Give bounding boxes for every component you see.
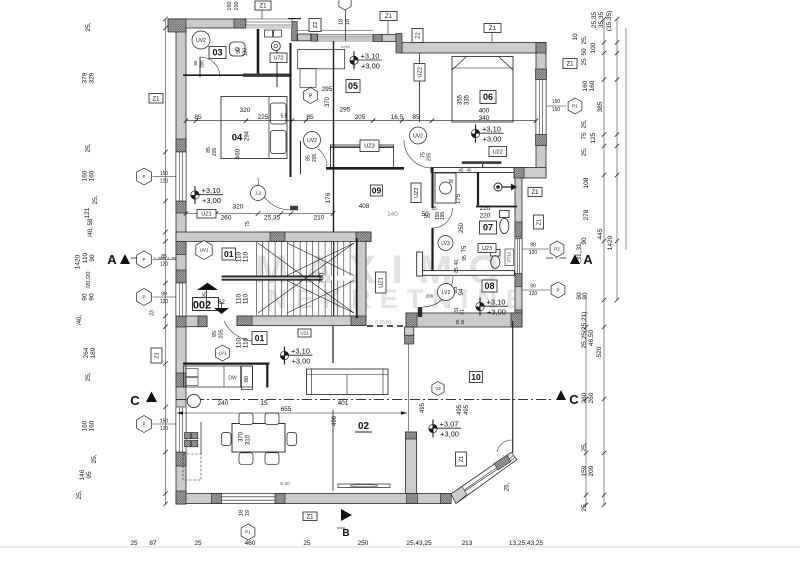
svg-text:240: 240: [218, 400, 229, 407]
svg-text:160: 160: [82, 420, 89, 431]
svg-text:Z1: Z1: [385, 14, 393, 20]
svg-text:176: 176: [325, 192, 332, 203]
svg-text:/40,: /40,: [77, 315, 83, 325]
svg-text:+3,00: +3,00: [292, 357, 311, 366]
svg-text:90: 90: [89, 254, 96, 262]
svg-text:110: 110: [82, 252, 89, 263]
svg-text:370: 370: [325, 96, 331, 107]
svg-text:95: 95: [431, 206, 437, 212]
svg-text:205: 205: [427, 153, 433, 162]
svg-text:A: A: [583, 252, 593, 267]
svg-text:80: 80: [244, 376, 250, 382]
svg-text:V2: V2: [435, 386, 441, 391]
svg-text:U21: U21: [300, 331, 309, 336]
svg-text:PT10: PT10: [507, 251, 512, 262]
svg-text:23: 23: [150, 310, 156, 316]
svg-text:(35,35): (35,35): [606, 11, 613, 32]
svg-text:Z1: Z1: [459, 456, 465, 462]
svg-text:310: 310: [246, 434, 252, 445]
svg-text:520: 520: [596, 346, 603, 357]
svg-text:+3,00: +3,00: [202, 196, 221, 205]
svg-text:195: 195: [440, 212, 446, 221]
svg-text:01: 01: [224, 249, 234, 259]
svg-text:90: 90: [89, 293, 96, 301]
svg-text:75: 75: [581, 132, 588, 140]
svg-text:108: 108: [583, 177, 590, 188]
svg-text:DW: DW: [228, 376, 237, 382]
svg-text:25,: 25,: [581, 147, 588, 156]
svg-text:95: 95: [212, 331, 218, 337]
svg-text:+3,00: +3,00: [483, 135, 502, 144]
svg-text:Z1: Z1: [566, 62, 574, 68]
svg-text:25: 25: [130, 540, 138, 547]
svg-text:95: 95: [462, 255, 468, 261]
svg-text:13,25,43,25: 13,25,43,25: [509, 540, 544, 547]
svg-text:496: 496: [332, 415, 338, 426]
svg-text:UZ1: UZ1: [379, 277, 385, 287]
svg-text:Z1: Z1: [154, 352, 160, 358]
svg-text:50: 50: [424, 214, 431, 220]
svg-text:08: 08: [484, 281, 494, 291]
svg-text:210: 210: [314, 215, 325, 222]
svg-text:+3,10: +3,10: [482, 125, 501, 134]
svg-text:15: 15: [260, 400, 268, 407]
svg-text:Z2: Z2: [313, 22, 319, 28]
svg-text:50: 50: [581, 48, 588, 56]
svg-text:UZ2: UZ2: [414, 188, 420, 198]
svg-text:320: 320: [240, 107, 251, 114]
svg-text:,31,: ,31,: [576, 251, 583, 262]
svg-text:225: 225: [258, 114, 269, 121]
svg-text:Z1: Z1: [489, 26, 497, 32]
svg-text:85: 85: [306, 155, 312, 161]
svg-text:90: 90: [82, 293, 89, 301]
svg-text:294: 294: [245, 130, 251, 141]
svg-text:120: 120: [160, 299, 169, 305]
svg-text:LV2: LV2: [442, 290, 451, 296]
svg-text:320: 320: [233, 204, 244, 211]
svg-text:UZ3: UZ3: [364, 144, 374, 150]
svg-text:495: 495: [457, 404, 463, 415]
svg-text:175: 175: [456, 193, 462, 204]
svg-text:,31,: ,31,: [576, 241, 583, 252]
svg-text:160: 160: [227, 1, 233, 10]
svg-text:75: 75: [245, 221, 251, 227]
svg-text:110: 110: [236, 293, 243, 304]
svg-text:+3,00: +3,00: [361, 61, 380, 70]
svg-text:150: 150: [160, 171, 169, 177]
svg-text:25,: 25,: [85, 22, 92, 31]
svg-text:295: 295: [340, 107, 351, 114]
svg-text:UV2: UV2: [196, 38, 206, 44]
svg-text:94: 94: [459, 288, 465, 295]
svg-text:160: 160: [89, 170, 96, 181]
svg-text:260: 260: [581, 392, 588, 403]
svg-text:150: 150: [234, 1, 240, 10]
svg-text:130: 130: [243, 48, 249, 57]
svg-text:90: 90: [530, 243, 536, 249]
svg-text:09: 09: [372, 186, 382, 196]
svg-text:10: 10: [471, 372, 481, 382]
svg-text:19: 19: [245, 510, 251, 516]
svg-text:445: 445: [597, 228, 604, 239]
svg-text:110: 110: [243, 337, 250, 348]
svg-text:460: 460: [235, 148, 242, 159]
svg-text:160: 160: [582, 80, 589, 91]
svg-text:90: 90: [236, 48, 242, 54]
svg-text:110: 110: [243, 251, 250, 262]
svg-text:220: 220: [480, 213, 491, 220]
svg-text:25,: 25,: [85, 372, 92, 381]
svg-text:250: 250: [358, 540, 369, 547]
svg-text:150: 150: [552, 99, 561, 105]
svg-text:90: 90: [161, 292, 167, 298]
svg-text:260: 260: [221, 215, 232, 222]
svg-text:+3,00: +3,00: [440, 430, 459, 439]
svg-text:E 60: E 60: [280, 481, 290, 486]
svg-text:213: 213: [462, 540, 473, 547]
svg-text:U72: U72: [273, 56, 283, 62]
svg-text:C: C: [130, 393, 140, 408]
svg-text:264: 264: [83, 347, 90, 358]
svg-text:16,5: 16,5: [391, 114, 404, 121]
svg-text:A: A: [107, 252, 117, 267]
svg-text:495: 495: [464, 404, 470, 415]
svg-text:160: 160: [89, 420, 96, 431]
svg-text:25,: 25,: [505, 482, 511, 491]
svg-text:Z1: Z1: [536, 219, 542, 225]
svg-text:P: P: [142, 174, 145, 179]
svg-text:75: 75: [462, 245, 468, 252]
svg-text:150: 150: [160, 419, 169, 425]
svg-text:05: 05: [348, 81, 358, 91]
svg-text:205: 205: [219, 329, 225, 338]
svg-text:25,: 25,: [76, 490, 83, 499]
svg-text:/40, 58: /40, 58: [88, 218, 94, 237]
svg-text:150: 150: [552, 107, 561, 113]
svg-text:LV3: LV3: [441, 241, 450, 247]
svg-text:46,50: 46,50: [588, 329, 595, 346]
svg-text:1420: 1420: [607, 235, 614, 250]
svg-text:25,35: 25,35: [264, 215, 281, 222]
svg-text:495: 495: [420, 402, 426, 413]
svg-text:25: 25: [303, 540, 311, 547]
svg-text:P: P: [142, 257, 145, 262]
svg-text:10: 10: [572, 33, 579, 41]
svg-text:100: 100: [590, 42, 597, 53]
svg-text:120: 120: [160, 426, 169, 432]
svg-text:W: W: [449, 179, 454, 185]
svg-text:04: 04: [232, 133, 243, 144]
svg-text:85: 85: [454, 267, 460, 273]
svg-text:329: 329: [89, 72, 96, 83]
svg-text:+3,10: +3,10: [291, 347, 310, 356]
svg-text:159: 159: [581, 465, 588, 476]
svg-text:25,: 25,: [581, 502, 588, 511]
svg-text:160: 160: [589, 80, 596, 91]
svg-text:01: 01: [255, 333, 265, 343]
svg-text:750: 750: [319, 272, 326, 283]
svg-text:120: 120: [160, 262, 169, 268]
svg-text:90: 90: [530, 284, 536, 290]
svg-text:205: 205: [312, 154, 318, 163]
svg-text:408: 408: [359, 203, 370, 210]
svg-text:UV1: UV1: [200, 248, 209, 253]
svg-text:U23: U23: [482, 246, 492, 252]
svg-text:95: 95: [86, 471, 93, 479]
svg-text:03: 03: [212, 48, 222, 58]
svg-text:120: 120: [529, 291, 538, 297]
svg-text:s=90: s=90: [341, 44, 351, 49]
svg-text:LV1: LV1: [219, 351, 227, 356]
svg-text:45: 45: [466, 168, 472, 173]
svg-text:P: P: [142, 422, 145, 427]
svg-text:26: 26: [460, 319, 465, 325]
svg-text:+3,00: +3,00: [487, 308, 506, 317]
svg-text:07: 07: [483, 223, 493, 233]
svg-text:Z1: Z1: [152, 96, 160, 102]
svg-text:C: C: [569, 392, 579, 407]
svg-text:31: 31: [460, 309, 466, 315]
svg-text:1,2: 1,2: [255, 191, 262, 196]
svg-text:295: 295: [322, 86, 333, 93]
svg-text:112°: 112°: [503, 454, 512, 459]
svg-text:85: 85: [306, 114, 314, 121]
svg-text:120: 120: [529, 250, 538, 256]
svg-text:379: 379: [82, 72, 89, 83]
svg-text:340: 340: [479, 115, 490, 122]
svg-text:85: 85: [412, 114, 420, 121]
svg-text:+3,10: +3,10: [487, 298, 506, 307]
svg-text:460: 460: [245, 540, 256, 547]
svg-text:25,: 25,: [91, 454, 98, 463]
svg-text:B: B: [342, 528, 349, 539]
svg-text:125: 125: [590, 132, 597, 143]
svg-text:110: 110: [236, 251, 243, 262]
svg-text:+3,07: +3,07: [440, 420, 459, 429]
svg-text:655: 655: [281, 406, 292, 413]
svg-text:06: 06: [483, 92, 493, 102]
svg-text:02: 02: [358, 421, 370, 432]
svg-text:18: 18: [339, 19, 345, 25]
svg-text:85: 85: [194, 114, 202, 121]
svg-text:+3,10: +3,10: [202, 186, 221, 195]
svg-text:1420: 1420: [75, 254, 82, 269]
svg-text:Z1: Z1: [259, 4, 267, 10]
svg-text:40,: 40,: [454, 259, 460, 266]
svg-text:D 25,50: D 25,50: [375, 320, 391, 325]
svg-text:18: 18: [239, 510, 245, 516]
svg-text:25,: 25,: [581, 119, 588, 128]
svg-text:250: 250: [459, 222, 465, 233]
svg-text:209: 209: [588, 465, 595, 476]
svg-text:189: 189: [90, 347, 97, 358]
svg-text:87: 87: [149, 540, 157, 547]
svg-text:140: 140: [387, 211, 398, 218]
svg-text:401: 401: [338, 400, 349, 407]
svg-text:Z1: Z1: [306, 514, 314, 520]
svg-text:5,5: 5,5: [281, 114, 288, 120]
svg-text:25,35: 25,35: [591, 11, 598, 28]
svg-text:UV2: UV2: [307, 138, 317, 144]
svg-text:121: 121: [84, 207, 91, 218]
svg-text:110: 110: [236, 337, 243, 348]
svg-text:25,: 25,: [581, 442, 588, 451]
svg-text:P: P: [142, 295, 145, 300]
svg-text:18: 18: [345, 19, 351, 25]
svg-text:205: 205: [212, 148, 218, 157]
svg-text:P1: P1: [572, 104, 578, 109]
svg-text:220: 220: [480, 205, 491, 212]
svg-text:P1: P1: [245, 530, 251, 535]
svg-text:UZ2: UZ2: [417, 67, 423, 77]
svg-text:002: 002: [193, 300, 211, 312]
svg-text:+3,10: +3,10: [361, 51, 380, 60]
svg-text:205: 205: [355, 114, 366, 121]
svg-text:120: 120: [160, 179, 169, 185]
svg-text:110: 110: [243, 293, 250, 304]
svg-text:146: 146: [79, 469, 86, 480]
svg-text:160: 160: [82, 170, 89, 181]
svg-text:25,25(25,21): 25,25(25,21): [581, 312, 588, 349]
svg-text:25,: 25,: [85, 143, 92, 152]
svg-text:Z2: Z2: [415, 32, 421, 38]
svg-text:25,: 25,: [92, 195, 99, 204]
svg-text:25: 25: [581, 58, 588, 66]
svg-text:385: 385: [597, 101, 604, 112]
svg-text:35,35: 35,35: [598, 11, 605, 28]
svg-text:U22: U22: [493, 149, 503, 155]
svg-text:85: 85: [161, 254, 167, 260]
svg-text:25: 25: [203, 292, 209, 298]
svg-text:45: 45: [458, 168, 464, 173]
svg-text:335: 335: [465, 94, 471, 105]
svg-text:25: 25: [194, 540, 202, 547]
svg-text:260: 260: [588, 392, 595, 403]
svg-text:370: 370: [239, 431, 245, 442]
svg-text:205: 205: [200, 60, 205, 68]
svg-text:80: 80: [582, 292, 589, 300]
svg-text:278: 278: [583, 209, 590, 220]
svg-text:85: 85: [193, 60, 198, 66]
svg-text:355: 355: [458, 94, 464, 105]
svg-text:P: P: [556, 288, 559, 293]
svg-text:200: 200: [426, 294, 434, 299]
svg-text:25,: 25,: [581, 35, 588, 44]
svg-text:/20,/20: /20,/20: [86, 272, 92, 289]
svg-text:UZ1: UZ1: [201, 212, 211, 218]
svg-text:400: 400: [479, 108, 490, 115]
svg-text:25,43,25: 25,43,25: [406, 540, 432, 547]
svg-text:P2: P2: [554, 247, 560, 252]
svg-text:Z1: Z1: [531, 190, 539, 196]
svg-text:UV2: UV2: [413, 133, 423, 139]
